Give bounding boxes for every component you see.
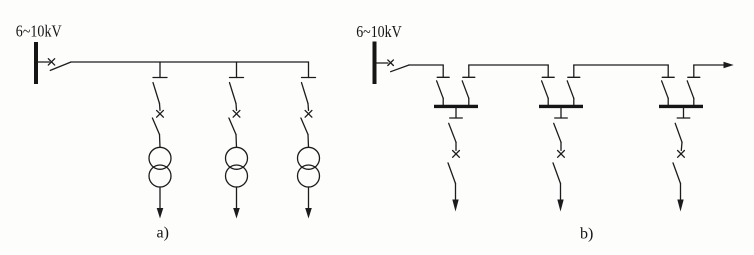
wire between disconnector and fuse, branch 3 (a)	[307, 104, 310, 111]
disconnector contact tick, branch 3 (a)	[302, 77, 316, 79]
feeder continuation arrowhead (b)	[724, 62, 734, 68]
fuse x symbol, branch 1 (a)	[157, 110, 164, 117]
transformer T2 secondary winding	[226, 165, 248, 187]
fuse-switch blade, substation 3 outgoing (b)	[673, 163, 681, 184]
wire to load, branch 3 (a)	[308, 187, 310, 210]
fuse-switch blade, substation 2 outgoing (b)	[553, 163, 561, 184]
disconnector blade, branch 2 (a)	[230, 83, 237, 104]
svg-text:6~10kV: 6~10kV	[16, 22, 62, 41]
wire: feeder segment 2 (b)	[469, 64, 548, 66]
load arrowhead, substation 2 outgoing (b)	[557, 200, 563, 212]
disconnector blade, feeder switch (b)	[391, 65, 409, 72]
wire to substation busbar, substation 2 left drop (b)	[547, 98, 549, 105]
disconnector blade, substation 1 outgoing (b)	[449, 123, 456, 142]
disconnector contact tick, branch 1 (a)	[153, 77, 167, 79]
wire: feeder segment 1 (b)	[409, 64, 443, 66]
wire to load, substation 1 outgoing (b)	[455, 184, 457, 202]
disconnector contact tick, substation 1 right drop (b)	[463, 76, 475, 78]
disconnector contact tick, substation 1 outgoing (b)	[450, 117, 463, 119]
load arrowhead, branch 1 (a)	[157, 208, 164, 219]
disconnector contact tick, substation 3 right drop (b)	[688, 76, 700, 78]
wire between disconnector and fuse, substation 2 outgoing (b)	[560, 142, 562, 150]
load arrowhead, branch 2 (a)	[233, 208, 240, 219]
fuse-switch blade, branch 2 (a)	[229, 118, 236, 135]
disconnector blade, substation 3 outgoing (b)	[675, 123, 682, 142]
disconnector blade, substation 2 outgoing (b)	[554, 123, 561, 142]
wire: entry stub, substation 3 right drop (b)	[693, 65, 695, 77]
fuse x symbol, substation 3 outgoing (b)	[678, 151, 685, 158]
wire to load, substation 3 outgoing (b)	[680, 184, 682, 202]
busbar 6~10kV (diagram a)	[34, 42, 38, 84]
wire: entry stub, substation 3 left drop (b)	[667, 65, 669, 77]
wire into transformer, branch 3 (a)	[307, 135, 310, 148]
wire to load, branch 2 (a)	[236, 187, 238, 210]
breaker x on feeder (b)	[388, 60, 394, 66]
wire: feeder segment 4 (b)	[694, 64, 724, 66]
fuse x symbol, branch 2 (a)	[233, 110, 240, 117]
wire: tap stub, branch 2 (a)	[236, 62, 238, 78]
wire to substation busbar, substation 2 right drop (b)	[573, 98, 575, 105]
wire: outgoing stub, substation 1 outgoing (b)	[455, 108, 457, 118]
fuse x symbol, substation 2 outgoing (b)	[558, 151, 565, 158]
wire: tap stub, branch 3 (a)	[308, 62, 310, 78]
svg-text:a): a)	[157, 225, 169, 242]
wire between disconnector and fuse, substation 1 outgoing (b)	[455, 142, 457, 150]
wire to load, substation 2 outgoing (b)	[560, 184, 562, 202]
wire: entry stub, substation 2 right drop (b)	[573, 65, 575, 77]
disconnector contact tick, substation 2 left drop (b)	[542, 76, 554, 78]
wire into transformer, branch 1 (a)	[159, 135, 162, 148]
wire: entry stub, substation 1 right drop (b)	[468, 65, 470, 77]
wire between disconnector and fuse, substation 3 outgoing (b)	[680, 142, 683, 150]
fuse-switch blade, substation 1 outgoing (b)	[448, 163, 456, 184]
load arrowhead, substation 3 outgoing (b)	[677, 200, 683, 212]
disconnector contact tick, branch 2 (a)	[230, 77, 244, 79]
substation 1 busbar (b)	[434, 105, 478, 108]
breaker x on feeder (a)	[48, 59, 54, 65]
disconnector contact tick, substation 2 right drop (b)	[568, 76, 580, 78]
disconnector blade, substation 3 right drop (b)	[687, 81, 694, 99]
disconnector blade, substation 2 left drop (b)	[542, 81, 549, 99]
wire into transformer, branch 2 (a)	[235, 135, 238, 148]
fuse x symbol, branch 3 (a)	[305, 110, 312, 117]
disconnector blade, branch 3 (a)	[302, 83, 309, 104]
transformer T2 primary winding	[226, 147, 248, 169]
fuse-switch blade, branch 3 (a)	[301, 118, 308, 135]
transformer T1 secondary winding	[149, 165, 171, 187]
wire to substation busbar, substation 1 right drop (b)	[468, 98, 470, 105]
wire: outgoing stub, substation 3 outgoing (b)	[683, 108, 685, 118]
substation 3 busbar (b)	[659, 105, 703, 108]
busbar 6~10kV (diagram b)	[373, 42, 377, 85]
substation 2 busbar (b)	[539, 105, 583, 108]
wire: main feeder (a)	[71, 61, 309, 63]
disconnector blade, feeder switch (a)	[50, 62, 71, 70]
wire between disconnector and fuse, branch 1 (a)	[159, 104, 162, 111]
disconnector blade, branch 1 (a)	[153, 83, 160, 104]
svg-text:6~10kV: 6~10kV	[356, 22, 402, 41]
transformer T3 primary winding	[298, 147, 320, 169]
disconnector contact tick, substation 1 left drop (b)	[437, 76, 449, 78]
wire: busbar stub (b)	[377, 62, 389, 64]
wire: entry stub, substation 2 left drop (b)	[547, 65, 549, 77]
disconnector blade, substation 3 left drop (b)	[662, 81, 669, 99]
load arrowhead, branch 3 (a)	[305, 208, 312, 219]
svg-text:b): b)	[580, 226, 593, 243]
disconnector blade, substation 1 left drop (b)	[437, 81, 444, 99]
wire to substation busbar, substation 3 right drop (b)	[693, 98, 695, 105]
load arrowhead, substation 1 outgoing (b)	[452, 200, 458, 212]
wire: entry stub, substation 1 left drop (b)	[442, 65, 444, 77]
disconnector blade, substation 1 right drop (b)	[462, 81, 469, 99]
disconnector contact tick, substation 3 outgoing (b)	[677, 117, 690, 119]
wire to substation busbar, substation 1 left drop (b)	[442, 98, 444, 105]
wire: tap stub, branch 1 (a)	[159, 62, 161, 78]
fuse x symbol, substation 1 outgoing (b)	[453, 151, 460, 158]
fuse-switch blade, branch 1 (a)	[152, 118, 159, 135]
wire between disconnector and fuse, branch 2 (a)	[235, 104, 238, 111]
disconnector contact tick, substation 3 left drop (b)	[662, 76, 674, 78]
wire to load, branch 1 (a)	[159, 187, 161, 210]
disconnector contact tick, substation 2 outgoing (b)	[555, 117, 568, 119]
transformer T1 primary winding	[149, 147, 171, 169]
disconnector blade, substation 2 right drop (b)	[567, 81, 574, 99]
transformer T3 secondary winding	[298, 165, 320, 187]
wire: busbar stub (a)	[38, 61, 50, 63]
wire: feeder segment 3 (b)	[574, 64, 668, 66]
wire: outgoing stub, substation 2 outgoing (b)	[560, 108, 562, 118]
wire to substation busbar, substation 3 left drop (b)	[667, 98, 669, 105]
